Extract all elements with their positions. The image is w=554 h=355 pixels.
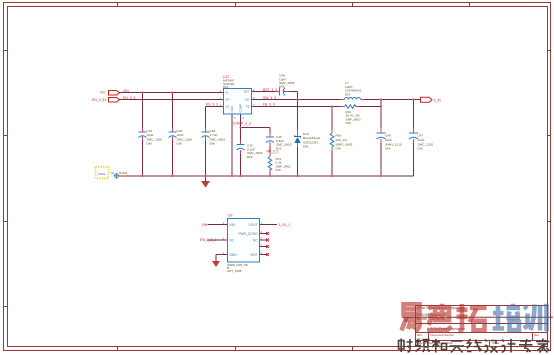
svg-text:FB: FB (246, 105, 250, 109)
svg-text:VIN: VIN (202, 223, 208, 227)
svg-text:C47: C47 (418, 134, 424, 138)
svg-text:DNI: DNI (279, 85, 284, 89)
svg-text:SMC_1210: SMC_1210 (418, 142, 434, 146)
svg-text:SW_3_3: SW_3_3 (263, 96, 276, 100)
svg-text:BST: BST (244, 90, 250, 94)
svg-text:DNI: DNI (303, 145, 308, 149)
svg-text:PWR_GOOD: PWR_GOOD (239, 232, 259, 236)
svg-text:COMP: COMP (239, 104, 243, 113)
svg-text:SOT_PW8: SOT_PW8 (227, 269, 242, 273)
svg-text:DNI: DNI (147, 142, 152, 146)
svg-text:NC: NC (253, 238, 258, 242)
svg-text:R60: R60 (336, 134, 342, 138)
svg-text:5: 5 (234, 116, 236, 120)
svg-text:DNI: DNI (276, 168, 281, 172)
svg-text:IN: IN (226, 91, 229, 95)
svg-text:DNI: DNI (210, 142, 215, 146)
svg-text:VINT: VINT (250, 253, 257, 257)
svg-text:VIN: VIN (123, 89, 129, 93)
svg-text:DNI: DNI (276, 146, 281, 150)
svg-text:B: B (418, 337, 420, 341)
svg-text:22uF: 22uF (385, 138, 392, 142)
svg-text:DNI: DNI (418, 147, 423, 151)
svg-text:GND1: GND1 (98, 172, 106, 176)
svg-text:EN_3_3: EN_3_3 (123, 96, 135, 100)
svg-text:SM08_D08_N8: SM08_D08_N8 (227, 263, 248, 267)
svg-text:COMP_3_3: COMP_3_3 (233, 122, 251, 126)
svg-text:SS_3_3: SS_3_3 (206, 103, 218, 107)
svg-text:DNI: DNI (177, 142, 182, 146)
svg-text:VOUT: VOUT (249, 223, 258, 227)
svg-text:C49: C49 (385, 134, 391, 138)
svg-text:DNI: DNI (223, 85, 228, 89)
svg-text:BST_3_3: BST_3_3 (263, 88, 277, 92)
svg-text:GND4: GND4 (119, 171, 128, 175)
svg-text:EN: EN (226, 98, 230, 102)
svg-text:NC: NC (230, 238, 235, 242)
svg-text:GND: GND (230, 106, 234, 112)
svg-text:DNI: DNI (247, 155, 252, 159)
svg-text:6: 6 (243, 116, 245, 120)
svg-text:100_1%: 100_1% (336, 138, 348, 142)
svg-text:SMF1_0805: SMF1_0805 (336, 142, 353, 146)
svg-text:DNI: DNI (385, 147, 390, 151)
svg-text:EN_3_3V: EN_3_3V (92, 98, 107, 102)
svg-text:Rev: Rev (534, 333, 540, 337)
svg-text:22uF: 22uF (418, 138, 425, 142)
svg-text:3_3V_1: 3_3V_1 (279, 223, 291, 227)
svg-text:TP: TP (110, 172, 114, 176)
svg-text:DNI: DNI (336, 147, 341, 151)
svg-text:SS: SS (226, 105, 230, 109)
svg-text:SM41_1210: SM41_1210 (385, 142, 402, 146)
svg-text:EN_3_3_1: EN_3_3_1 (200, 238, 216, 242)
svg-text:VIN: VIN (230, 223, 236, 227)
svg-text:SW: SW (245, 98, 250, 102)
svg-text:DNI: DNI (345, 92, 350, 96)
svg-text:FB_3_3: FB_3_3 (263, 103, 275, 107)
svg-text:Vin: Vin (100, 91, 105, 95)
svg-text:3_3V: 3_3V (434, 99, 443, 103)
svg-text:U9: U9 (228, 214, 232, 218)
svg-text:Document Number: Document Number (431, 333, 455, 337)
svg-text:DNI: DNI (346, 121, 351, 125)
svg-text:GND: GND (230, 253, 238, 257)
